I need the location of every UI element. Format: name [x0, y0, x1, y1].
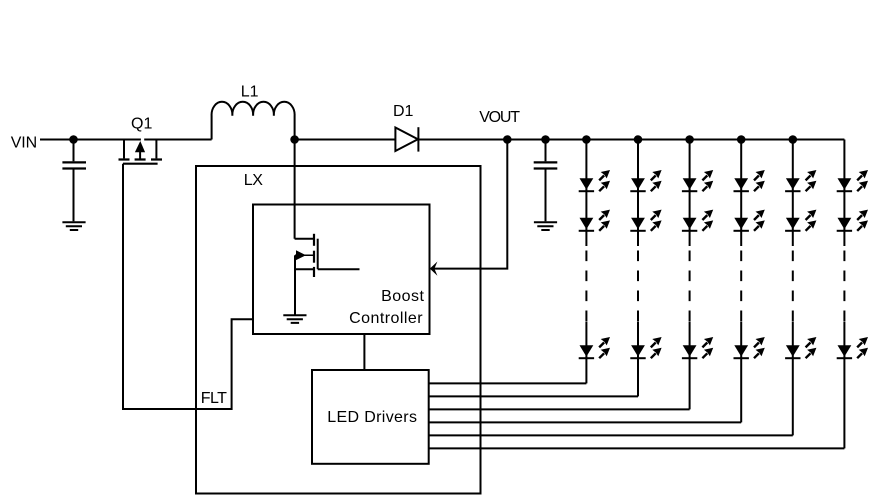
transistor internal NMOS — [295, 234, 360, 315]
ground (output cap) — [534, 222, 557, 230]
box main IC outline — [196, 166, 481, 494]
svg-text:LX: LX — [244, 172, 263, 189]
capacitor C-out — [534, 161, 558, 163]
svg-text:VIN: VIN — [11, 134, 37, 151]
LED string 5 — [785, 135, 816, 435]
svg-text:VOUT: VOUT — [479, 109, 520, 126]
svg-text:Q1: Q1 — [131, 116, 152, 133]
wire boost to LED drivers — [363, 334, 365, 370]
inductor L1 — [212, 102, 295, 140]
box LED drivers — [312, 370, 429, 464]
wire Q1 gate / FLT — [123, 164, 253, 409]
diode D1 — [395, 128, 418, 152]
wire LED driver ch4 — [429, 421, 742, 423]
svg-text:D1: D1 — [393, 103, 414, 120]
svg-text:LED Drivers: LED Drivers — [327, 409, 417, 426]
wire LED driver ch1 — [429, 382, 587, 384]
wire VIN rail — [40, 139, 844, 141]
capacitor C-in — [62, 161, 86, 163]
transistor Q1 — [119, 140, 163, 164]
wire LED driver ch5 — [429, 434, 793, 436]
wire output cap top — [545, 140, 547, 162]
wire LED driver ch6 — [429, 447, 845, 449]
LED string 4 — [734, 135, 765, 422]
wire VIN cap top — [73, 140, 75, 162]
wire VOUT feedback — [434, 140, 507, 269]
LED string 6 — [837, 140, 868, 449]
node output cap junction — [541, 135, 550, 144]
LED string 3 — [682, 135, 713, 409]
svg-text:L1: L1 — [241, 84, 259, 101]
LED string 2 — [630, 135, 661, 396]
arrowhead into boost controller — [430, 262, 438, 276]
svg-text:Boost: Boost — [381, 288, 424, 305]
node VOUT junction — [503, 135, 512, 144]
ground (input cap) — [62, 222, 85, 230]
LED string 1 — [579, 135, 610, 383]
node VIN junction — [69, 135, 78, 144]
wire VIN cap bottom — [73, 170, 75, 222]
wire output cap bottom — [545, 170, 547, 222]
svg-text:FLT: FLT — [201, 390, 227, 407]
box boost controller U1 — [253, 205, 430, 335]
wire LX — [294, 140, 296, 239]
ground (internal NMOS) — [283, 315, 306, 323]
node LX junction — [290, 135, 299, 144]
wire LED driver ch3 — [429, 408, 690, 410]
wire LED driver ch2 — [429, 395, 638, 397]
svg-text:Controller: Controller — [349, 310, 423, 327]
